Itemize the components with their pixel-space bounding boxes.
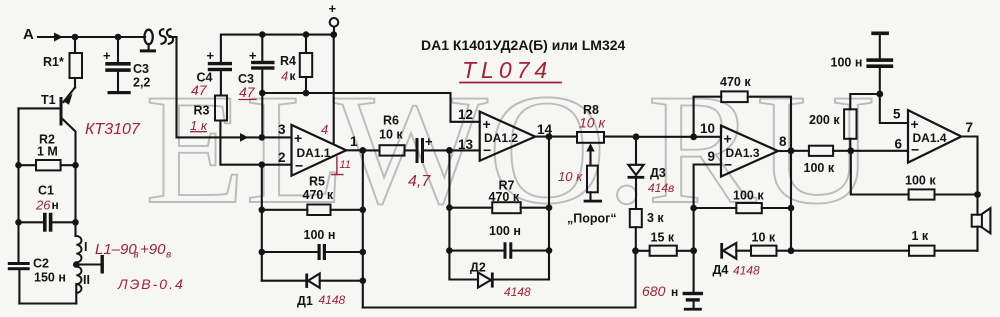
node DA1.2 pin13 [446, 147, 453, 154]
svg-text:470 к: 470 к [720, 75, 751, 89]
wire connector to DA1.1 input [170, 37, 262, 142]
svg-text:Д2: Д2 [470, 261, 486, 275]
node 3k bottom [632, 247, 639, 254]
IC substitution handwritten TL074 [460, 57, 561, 83]
svg-text:15 к: 15 к [651, 231, 675, 245]
svg-text:TL074: TL074 [462, 57, 552, 83]
svg-text:4148: 4148 [319, 293, 346, 307]
L1 winding note handwritten [95, 241, 171, 261]
capacitor C3 electrolytic 47 [238, 31, 275, 93]
transistor value KT3107 handwritten [85, 121, 141, 138]
svg-text:DA1 К1401УД2А(Б) или LM324: DA1 К1401УД2А(Б) или LM324 [421, 37, 626, 53]
L1 wire type handwritten [117, 276, 185, 292]
node A input label [23, 26, 34, 43]
svg-text:9: 9 [708, 149, 716, 164]
resistor R4 [280, 31, 312, 96]
wire C3 node to connector [118, 36, 145, 38]
threshold terminal label Porog [567, 212, 617, 226]
resistor R1 [43, 37, 82, 88]
svg-text:R4: R4 [280, 54, 296, 68]
wire DA1.2 output rail [493, 137, 552, 280]
capacitor 4.7 coupling [416, 134, 450, 163]
wire pin6 [851, 150, 908, 152]
wire R8 to DA1.3 pin10 [636, 136, 694, 138]
node junction A [72, 34, 79, 41]
connector jack J1 [140, 30, 156, 53]
node R8 right / D3 [633, 133, 640, 140]
wire bottom loop left [19, 302, 76, 304]
diode D3 [628, 137, 666, 209]
svg-text:100 к: 100 к [804, 161, 835, 175]
diode D4 [713, 243, 752, 277]
svg-text:47: 47 [239, 84, 256, 100]
R8 wiper arrow [586, 143, 594, 163]
svg-text:4,7: 4,7 [408, 173, 431, 190]
svg-text:T1: T1 [41, 93, 56, 107]
C3 value handwritten 47 [239, 84, 256, 100]
svg-text:11: 11 [340, 159, 351, 171]
capacitor C2 150n [8, 257, 66, 304]
node 100n bottom [876, 91, 883, 98]
680n value handwritten [642, 283, 666, 299]
wire top rail [221, 35, 334, 62]
svg-text:+: + [329, 1, 337, 16]
svg-text:26: 26 [35, 198, 51, 213]
svg-text:A: A [23, 26, 34, 43]
node 200k bottom / pin6 [847, 147, 854, 154]
svg-text:100 н: 100 н [489, 224, 521, 238]
svg-text:470 к: 470 к [489, 190, 520, 204]
svg-text:DA1.2: DA1.2 [484, 131, 518, 145]
svg-text:150 н: 150 н [34, 271, 66, 285]
op-amp U DA1.4 [893, 107, 973, 163]
resistor R5 470k [262, 175, 363, 216]
diode D1 [262, 274, 363, 309]
svg-text:R5: R5 [309, 175, 325, 189]
svg-text:+: + [207, 48, 215, 63]
resistor R7 470k [449, 179, 549, 214]
node feedback right [974, 191, 981, 198]
wire input arrow to node [38, 33, 75, 42]
svg-text:4148: 4148 [504, 285, 531, 299]
R8 value handwritten 10k [579, 115, 606, 131]
op-amp U DA1.1 [262, 122, 363, 176]
resistor 10k lower [751, 231, 791, 256]
svg-text:1: 1 [350, 134, 358, 149]
svg-text:6: 6 [895, 137, 903, 152]
svg-text:н: н [52, 198, 59, 212]
capacitor C1 [15, 184, 79, 232]
wire lower row to 1k [791, 250, 909, 252]
svg-text:+: + [483, 116, 491, 132]
resistor 100k DA1.3 lower [694, 189, 791, 214]
resistor 3k [630, 209, 665, 251]
svg-text:10 к: 10 к [579, 115, 606, 131]
svg-text:R6: R6 [383, 114, 399, 128]
node DA1.1 output [359, 147, 366, 154]
node DA1.3 pin10 [690, 133, 697, 140]
svg-text:100 н: 100 н [304, 228, 336, 242]
svg-text:в: в [134, 250, 139, 261]
wire DA1.1 output rail [360, 150, 367, 307]
svg-text:7: 7 [966, 120, 974, 135]
wire bias rail to DA1.2 pin12 [259, 90, 480, 138]
capacitor C4 electrolytic [197, 48, 233, 96]
wire power to DA1.1 pin4 [333, 35, 335, 144]
wire left rail [17, 108, 19, 262]
svg-text:Д4: Д4 [713, 263, 729, 277]
svg-text:„Порог“: „Порог“ [567, 212, 617, 226]
op-amp U DA1.2 [449, 107, 552, 161]
svg-text:100 к: 100 к [905, 174, 936, 188]
svg-text:13: 13 [458, 137, 474, 152]
wire bottom rail [363, 251, 636, 308]
svg-text:+: + [911, 116, 919, 132]
svg-text:1 M: 1 M [37, 145, 58, 159]
svg-text:C2: C2 [33, 257, 49, 271]
resistor 200k [809, 94, 880, 151]
capacitor C3 2.2 electrolytic [103, 37, 150, 94]
svg-text:1 к: 1 к [912, 229, 929, 243]
svg-text:в: в [166, 250, 171, 261]
resistor 100k row3 [791, 146, 851, 175]
power terminal + [329, 1, 339, 38]
svg-text:+: + [724, 131, 732, 147]
svg-text:4148: 4148 [733, 264, 760, 278]
DA1.1 power pin annotations handwritten 4 and 11 [321, 122, 351, 175]
svg-text:10 к: 10 к [379, 128, 403, 142]
svg-text:10 к: 10 к [558, 169, 583, 184]
op-amp U DA1.3 [694, 121, 791, 208]
svg-text:DA1.1: DA1.1 [297, 146, 331, 160]
svg-text:3: 3 [278, 122, 286, 137]
wire A node to C3 top [75, 34, 121, 41]
wire break symbol [160, 29, 173, 44]
svg-text:C1: C1 [38, 184, 54, 198]
svg-text:100 н: 100 н [831, 56, 863, 70]
inductor L1 [73, 236, 104, 304]
svg-text:10 к: 10 к [752, 231, 776, 245]
svg-text:+: + [103, 48, 111, 63]
svg-text:414в: 414в [648, 181, 674, 195]
wire DA1.3 right rail [788, 151, 795, 254]
svg-text:1 к: 1 к [190, 118, 208, 133]
svg-text:DA1.4: DA1.4 [913, 131, 947, 145]
D4 value handwritten 4148 [733, 264, 760, 278]
wire pin5 [880, 94, 908, 123]
diode D2 [470, 261, 494, 288]
svg-text:+: + [425, 134, 433, 149]
node DA1.1 pin3 [259, 134, 266, 141]
svg-text:Д3: Д3 [650, 166, 666, 180]
IC title DA1 K1401UD2A(B) or LM324 [421, 37, 626, 53]
watermark ELWO.RU [145, 62, 875, 237]
capacitor 100n DA1.2 feedback [449, 224, 549, 259]
svg-text:R3: R3 [194, 104, 210, 118]
transistor T1 [19, 88, 76, 166]
svg-text:Д1: Д1 [297, 294, 313, 308]
svg-text:100 к: 100 к [733, 189, 764, 203]
svg-text:2,2: 2,2 [133, 76, 150, 90]
capacitor 680n to ground [671, 251, 703, 311]
svg-text:200 к: 200 к [809, 113, 840, 127]
resistor 100k DA1.4 feedback [851, 151, 978, 200]
node DA1.2 output [546, 133, 553, 140]
node DA1.1 pin2 [259, 161, 266, 168]
D3 value handwritten [648, 181, 674, 195]
svg-text:+: + [294, 130, 302, 146]
wire DA1.2 feedback left rail [446, 150, 478, 279]
resistor 470k DA1.3 feedback [694, 75, 791, 151]
svg-text:680: 680 [642, 283, 666, 299]
capacitor 100n DA1.1 feedback [262, 228, 363, 260]
D2 value handwritten 4148 [504, 285, 531, 299]
svg-text:12: 12 [458, 107, 473, 122]
svg-text:DA1.3: DA1.3 [726, 146, 760, 160]
speaker [972, 208, 991, 251]
svg-text:3 к: 3 к [647, 211, 664, 225]
svg-text:+90: +90 [140, 241, 166, 258]
svg-text:ЛЭВ-0.4: ЛЭВ-0.4 [117, 276, 185, 292]
svg-text:н: н [671, 285, 678, 299]
svg-text:2: 2 [278, 150, 286, 165]
threshold 10k value handwritten [558, 169, 583, 184]
svg-text:L1–90: L1–90 [95, 241, 137, 258]
svg-text:II: II [83, 273, 90, 287]
wire pin9 rail down [693, 208, 695, 251]
wire DA1.1 feedback left rail [259, 165, 266, 281]
coupling cap value handwritten 4,7 [408, 173, 431, 190]
resistor 10k threshold [584, 166, 602, 203]
svg-text:к: к [290, 69, 297, 83]
resistor R2 1M [15, 133, 79, 171]
svg-text:+: + [249, 48, 257, 63]
R3 value handwritten 1k [190, 118, 208, 133]
resistor R6 10k [363, 114, 416, 156]
capacitor 100n DA1.4 [831, 32, 894, 95]
wire DA1.4 output down [961, 137, 977, 215]
D1 value handwritten 4148 [319, 293, 346, 307]
node DA1.3 output [788, 147, 795, 154]
svg-text:5: 5 [893, 107, 901, 122]
svg-text:КТ3107: КТ3107 [85, 121, 141, 138]
svg-text:470 к: 470 к [303, 188, 334, 202]
svg-text:4: 4 [281, 69, 288, 84]
svg-text:10: 10 [700, 121, 715, 136]
svg-text:R1*: R1* [43, 55, 64, 69]
svg-text:C3: C3 [133, 62, 149, 76]
svg-text:I: I [84, 240, 87, 254]
resistor 15k [636, 231, 694, 256]
svg-text:47: 47 [191, 82, 208, 98]
node 15k right [690, 247, 697, 254]
potentiometer R8 10k [549, 103, 636, 143]
wire mid rail collector to L1 [74, 165, 76, 236]
svg-text:8: 8 [779, 134, 787, 149]
svg-text:4: 4 [321, 122, 328, 137]
resistor R3 [194, 96, 262, 165]
C4 value handwritten 47 [191, 82, 208, 98]
resistor 1k [909, 229, 978, 256]
node pin9 rail junction [690, 205, 697, 212]
